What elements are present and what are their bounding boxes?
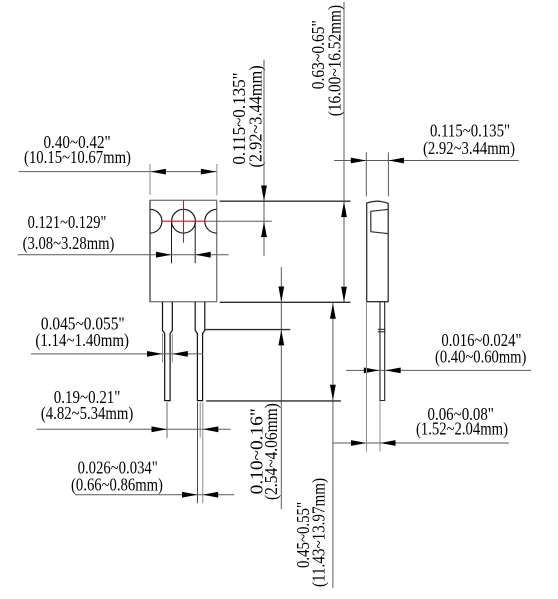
front right lead	[195, 302, 205, 401]
side width arrow left	[351, 158, 367, 164]
shoulder length arrow down	[278, 287, 284, 303]
side lead step tick lower	[378, 331, 386, 333]
front view body outline	[150, 200, 217, 301]
hole center line extension right	[205, 220, 272, 222]
lead bottom extension line	[206, 400, 341, 402]
body height arrow up	[341, 202, 347, 218]
hole offset arrow down	[261, 186, 267, 202]
side view tab notch	[371, 209, 388, 233]
hole tangent line right	[194, 222, 196, 263]
svg-text:(0.66~0.86mm): (0.66~0.86mm)	[71, 474, 163, 495]
body top extension line	[220, 200, 351, 202]
lead spacing arrow right	[203, 426, 219, 432]
red crosshair vertical	[183, 200, 185, 242]
lead spacing dimension line	[37, 428, 231, 430]
side width extension line left	[365, 152, 367, 196]
hole offset dimension line	[263, 60, 265, 256]
shoulder width arrow left	[147, 351, 163, 357]
lead setback dimension line	[333, 442, 509, 444]
lead width extension line right	[202, 402, 204, 503]
front left lead	[163, 302, 173, 401]
shoulder extension line right	[171, 334, 173, 363]
lead thickness arrow right	[385, 368, 401, 374]
lead face extension line	[379, 401, 381, 452]
shoulder extension line left	[162, 334, 164, 363]
svg-text:(2.92~3.44mm): (2.92~3.44mm)	[246, 65, 267, 167]
shoulder length arrow up	[278, 330, 284, 346]
svg-text:(2.54~4.06mm): (2.54~4.06mm)	[261, 403, 282, 500]
side view body outline	[367, 201, 389, 302]
side lead step tick upper	[378, 328, 386, 330]
lead width arrow right	[203, 492, 219, 498]
lead setback arrow right	[380, 440, 396, 446]
body height arrow down	[341, 287, 347, 303]
mounting hole circle	[172, 209, 196, 233]
body width extension line left	[149, 164, 151, 195]
shoulder width arrow right	[172, 351, 188, 357]
body width dimension line	[19, 171, 217, 173]
lead thickness arrow left	[364, 368, 380, 374]
lead length arrow down	[330, 385, 336, 401]
hole diameter arrow right	[195, 252, 211, 258]
svg-text:(1.14~1.40mm): (1.14~1.40mm)	[35, 330, 129, 351]
right edge notch semicircle	[205, 209, 217, 233]
body width arrow right	[201, 169, 217, 175]
svg-text:(3.08~3.28mm): (3.08~3.28mm)	[23, 233, 115, 254]
body width arrow left	[150, 169, 166, 175]
svg-text:(4.82~5.34mm): (4.82~5.34mm)	[41, 403, 133, 424]
body face extension line	[366, 303, 368, 452]
hole offset arrow up	[261, 222, 267, 238]
lead length dimension line	[332, 303, 334, 588]
lead spacing extension line left	[166, 402, 168, 438]
svg-text:(16.00~16.52mm): (16.00~16.52mm)	[324, 5, 345, 116]
lead thickness dimension line	[346, 369, 531, 371]
lead step extension line	[205, 329, 291, 331]
side view lead	[380, 302, 385, 401]
red crosshair horizontal	[163, 220, 206, 222]
lead center extension line	[199, 402, 201, 437]
shoulder length dimension line	[280, 267, 282, 509]
svg-text:(11.43~13.97mm): (11.43~13.97mm)	[309, 478, 330, 587]
shoulder width dimension line	[31, 353, 203, 355]
hole diameter dimension line	[18, 254, 229, 256]
body width extension line right	[216, 164, 218, 195]
hole tangent line left	[171, 222, 173, 263]
lead spacing arrow left	[152, 426, 168, 432]
left edge notch semicircle	[150, 209, 162, 233]
side width arrow right	[388, 158, 404, 164]
lead setback arrow left	[351, 440, 367, 446]
lead length arrow up	[330, 303, 336, 319]
svg-text:(2.92~3.44mm): (2.92~3.44mm)	[423, 138, 515, 159]
svg-text:0.121~0.129": 0.121~0.129"	[28, 212, 107, 232]
lead width extension line left	[197, 402, 199, 503]
side width extension line right	[387, 152, 389, 196]
hole diameter arrow left	[156, 252, 172, 258]
body height dimension line	[343, 2, 345, 302]
body bottom extension line	[220, 301, 351, 303]
lead width arrow left	[182, 492, 198, 498]
side width dimension line	[334, 160, 519, 162]
svg-text:(1.52~2.04mm): (1.52~2.04mm)	[416, 419, 508, 440]
svg-text:(0.40~0.60mm): (0.40~0.60mm)	[435, 346, 526, 367]
front body left edge accent	[149, 200, 151, 301]
svg-text:(10.15~10.67mm): (10.15~10.67mm)	[24, 147, 131, 168]
lead width dimension line	[75, 494, 234, 496]
